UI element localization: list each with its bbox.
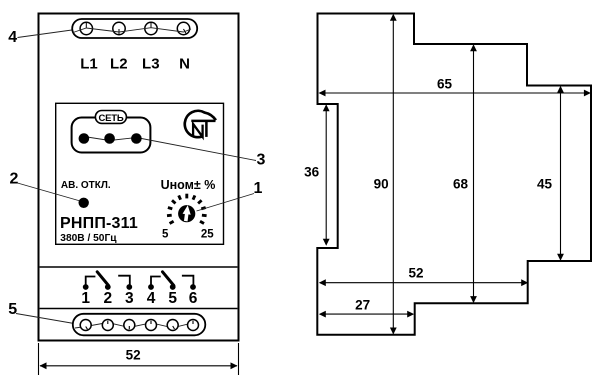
svg-text:СЕТЬ: СЕТЬ — [98, 113, 123, 124]
svg-text:АВ. ОТКЛ.: АВ. ОТКЛ. — [61, 180, 111, 191]
svg-text:3: 3 — [125, 290, 134, 307]
svg-text:5: 5 — [162, 229, 169, 241]
svg-text:5: 5 — [8, 301, 17, 318]
svg-text:27: 27 — [355, 297, 370, 312]
svg-text:52: 52 — [408, 265, 423, 280]
svg-text:1: 1 — [81, 290, 90, 307]
svg-text:4: 4 — [8, 29, 17, 46]
svg-text:1: 1 — [254, 180, 263, 197]
svg-text:45: 45 — [537, 177, 553, 192]
svg-text:N: N — [179, 56, 190, 73]
svg-text:380В / 50Гц: 380В / 50Гц — [60, 233, 117, 244]
svg-text:52: 52 — [126, 348, 141, 363]
svg-text:25: 25 — [201, 229, 214, 241]
svg-text:2: 2 — [10, 170, 19, 187]
svg-text:L1: L1 — [80, 56, 98, 73]
svg-text:Uном± %: Uном± % — [161, 178, 216, 192]
svg-text:РНПП-311: РНПП-311 — [60, 215, 138, 232]
svg-text:65: 65 — [437, 77, 453, 92]
svg-text:36: 36 — [304, 165, 320, 180]
svg-text:L3: L3 — [142, 56, 160, 73]
svg-text:2: 2 — [103, 290, 112, 307]
svg-text:3: 3 — [257, 152, 266, 169]
svg-text:90: 90 — [374, 177, 389, 192]
svg-text:4: 4 — [147, 290, 156, 307]
svg-text:L2: L2 — [110, 56, 128, 73]
svg-text:6: 6 — [189, 290, 198, 307]
svg-text:5: 5 — [168, 290, 177, 307]
svg-text:68: 68 — [453, 177, 469, 192]
